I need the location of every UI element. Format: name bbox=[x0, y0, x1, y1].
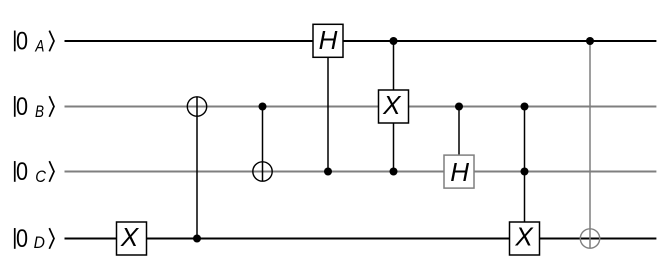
svg-text:C: C bbox=[35, 168, 46, 186]
svg-text:H: H bbox=[319, 25, 338, 55]
svg-text:B: B bbox=[35, 103, 44, 122]
svg-text:X: X bbox=[514, 222, 534, 252]
svg-text:X: X bbox=[382, 90, 402, 120]
svg-text:D: D bbox=[34, 234, 45, 253]
svg-text:0: 0 bbox=[16, 158, 28, 186]
svg-text:H: H bbox=[450, 157, 469, 187]
svg-text:0: 0 bbox=[16, 27, 28, 55]
svg-text:A: A bbox=[35, 37, 45, 56]
svg-text:X: X bbox=[120, 222, 140, 252]
svg-text:0: 0 bbox=[16, 225, 28, 253]
svg-text:0: 0 bbox=[16, 93, 28, 121]
